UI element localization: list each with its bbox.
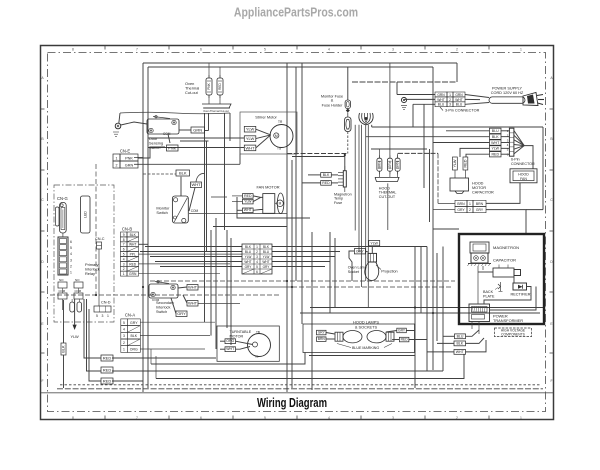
svg-text:BLK: BLK xyxy=(62,345,66,353)
svg-text:3: 3 xyxy=(392,48,394,52)
svg-text:ORG: ORG xyxy=(130,348,138,352)
svg-text:3: 3 xyxy=(392,416,394,420)
svg-text:NO: NO xyxy=(59,278,64,282)
wire 6pin label feeds xyxy=(446,130,490,132)
svg-text:3: 3 xyxy=(70,258,72,262)
wire hood cutout feeds xyxy=(378,149,380,158)
svg-text:GRY: GRY xyxy=(318,330,326,334)
stirrer motor group box xyxy=(240,112,297,154)
svg-text:YLW: YLW xyxy=(491,147,499,151)
wire WHT hook xyxy=(196,173,205,182)
svg-text:HOOD: HOOD xyxy=(472,182,484,186)
svg-text:F: F xyxy=(41,379,43,383)
wire CNA row1 out xyxy=(140,348,205,350)
capacitor hv xyxy=(493,268,514,277)
wire monitor fuse down xyxy=(347,132,349,154)
svg-text:6: 6 xyxy=(200,416,202,420)
wire WHT down xyxy=(189,188,195,212)
wire red run 1 xyxy=(112,357,216,359)
wire center dashed A xyxy=(287,153,348,155)
svg-text:BLK: BLK xyxy=(456,341,463,345)
wire label RED 1 xyxy=(101,355,113,361)
svg-text:RED: RED xyxy=(401,337,409,341)
svg-text:9: 9 xyxy=(123,233,125,237)
wire label GRN door xyxy=(191,127,205,133)
svg-text:RED: RED xyxy=(491,153,499,157)
wire fan feeds xyxy=(232,195,243,197)
svg-text:CN-G: CN-G xyxy=(57,196,68,201)
wire harness strand 4 xyxy=(365,125,367,281)
svg-text:2: 2 xyxy=(456,416,458,420)
svg-text:4: 4 xyxy=(256,260,258,264)
svg-text:GRN: GRN xyxy=(125,163,134,167)
wire vert x210 xyxy=(210,230,212,336)
wire label WHT fan xyxy=(243,208,254,213)
svg-text:M: M xyxy=(275,134,278,138)
svg-text:PNK: PNK xyxy=(207,82,211,89)
wire red feeds xyxy=(84,299,101,358)
wire CNB row5 out xyxy=(139,253,243,255)
wire 6pin fanout xyxy=(514,131,524,146)
svg-text:&: & xyxy=(331,99,334,103)
wire door drop right xyxy=(208,113,210,131)
wire vert x206 xyxy=(206,141,208,252)
wire label BRN hood L xyxy=(317,337,327,342)
wire vert x296 xyxy=(295,67,297,281)
svg-text:RED: RED xyxy=(244,194,252,198)
svg-text:COM: COM xyxy=(191,209,199,213)
svg-text:ORG: ORG xyxy=(226,339,234,343)
wire center dashed B xyxy=(292,156,345,158)
svg-text:6: 6 xyxy=(200,48,202,52)
wire harness strand 6 xyxy=(371,125,373,127)
wire vert x335 xyxy=(334,238,336,307)
wire label YLW stirrer 2 xyxy=(244,136,256,142)
power transformer xyxy=(469,304,490,322)
wire 3pin top xyxy=(352,81,457,83)
wire PNK down xyxy=(168,134,170,143)
svg-text:WHT: WHT xyxy=(456,350,465,354)
svg-text:7: 7 xyxy=(136,48,138,52)
svg-text:6: 6 xyxy=(256,270,258,274)
hood fan xyxy=(510,169,537,183)
svg-text:3-Pin CONNECTOR: 3-Pin CONNECTOR xyxy=(445,109,480,113)
wire 6pin to hood fan xyxy=(524,146,533,169)
wire fan bottom xyxy=(237,197,310,218)
svg-text:BLU: BLU xyxy=(438,103,445,107)
turntable group box xyxy=(217,326,279,361)
svg-text:1: 1 xyxy=(107,314,109,318)
wire red run 3 xyxy=(112,380,143,382)
wire vert x433 xyxy=(432,67,434,370)
connector pin strip 6pin left xyxy=(58,237,68,275)
svg-text:BLK: BLK xyxy=(179,171,187,176)
wire hood top 2 xyxy=(300,312,540,314)
svg-text:3: 3 xyxy=(449,103,451,107)
wire harness bundle xyxy=(359,113,373,125)
svg-text:8: 8 xyxy=(72,416,74,420)
wire center row 3R xyxy=(272,256,335,258)
wire CNA row3 out xyxy=(140,335,210,337)
svg-text:YLW: YLW xyxy=(245,255,252,259)
wire below hood box xyxy=(309,355,415,357)
wire CNE GRN out xyxy=(134,163,240,165)
svg-text:1: 1 xyxy=(469,202,471,206)
svg-text:5: 5 xyxy=(96,314,98,318)
svg-text:1: 1 xyxy=(256,245,258,249)
svg-text:YLW: YLW xyxy=(71,334,79,339)
connector 6-pin pin strip xyxy=(509,128,514,156)
svg-text:CAPACITOR: CAPACITOR xyxy=(472,191,494,195)
wire stirrer fanout xyxy=(256,129,271,135)
svg-text:GRY: GRY xyxy=(476,208,484,212)
wire vert x330 xyxy=(329,232,331,313)
svg-text:TS: TS xyxy=(277,147,281,151)
wire turntable feeds xyxy=(220,340,225,342)
wire label GRY hood R xyxy=(397,328,407,333)
wire CNA row5 out xyxy=(140,321,215,323)
svg-text:WHT: WHT xyxy=(129,243,137,247)
wire harness strand 5 xyxy=(367,125,369,308)
switch secondary interlock xyxy=(149,284,178,298)
svg-text:1: 1 xyxy=(449,93,451,97)
oven lamp socket xyxy=(368,253,377,262)
svg-text:Wiring Diagram: Wiring Diagram xyxy=(257,397,327,411)
wire vert x287 xyxy=(286,63,288,392)
svg-text:MAGNETRON: MAGNETRON xyxy=(493,245,519,250)
svg-text:CN-D: CN-D xyxy=(101,301,111,305)
wire long dashed y287 xyxy=(292,286,452,288)
svg-text:TB: TB xyxy=(256,330,260,334)
svg-text:RED: RED xyxy=(103,379,112,384)
svg-text:YLW: YLW xyxy=(246,127,255,132)
wire center row 1R xyxy=(272,246,427,248)
hood thermal cut-out xyxy=(377,158,382,171)
wire BLK left xyxy=(143,173,176,175)
svg-text:1: 1 xyxy=(70,271,72,275)
wire mid dashed y295 xyxy=(50,294,280,296)
svg-text:3: 3 xyxy=(102,314,104,318)
svg-text:GRN: GRN xyxy=(193,128,202,133)
svg-text:COM: COM xyxy=(152,298,160,302)
svg-text:PPL: PPL xyxy=(130,253,136,257)
svg-text:2: 2 xyxy=(123,267,125,271)
magnetron xyxy=(470,242,489,253)
wire center row 5R xyxy=(272,266,325,268)
hood lamp 1 xyxy=(343,331,362,343)
svg-text:RED: RED xyxy=(103,356,112,361)
wire label YLW fan xyxy=(243,199,254,204)
svg-text:4: 4 xyxy=(123,328,125,332)
svg-text:6: 6 xyxy=(70,240,72,244)
wire WHT sec out xyxy=(198,286,292,288)
svg-text:WHT: WHT xyxy=(437,98,445,102)
wire label WHT br xyxy=(454,350,466,355)
svg-text:MOTOR: MOTOR xyxy=(472,186,486,190)
svg-text:Fuse: Fuse xyxy=(334,201,342,205)
wire vert x415 xyxy=(414,247,416,389)
wire label WHT turntable xyxy=(225,347,236,352)
svg-text:CUT-OUT: CUT-OUT xyxy=(379,195,396,199)
svg-text:CN-E: CN-E xyxy=(120,149,130,154)
title separator line xyxy=(41,392,553,394)
wire vert x213 xyxy=(215,218,217,349)
node YLW arrow xyxy=(73,325,77,330)
svg-text:WHT: WHT xyxy=(244,208,253,212)
svg-text:BRN: BRN xyxy=(476,202,484,206)
svg-text:RED: RED xyxy=(218,82,222,89)
wire vert x424 xyxy=(423,104,425,188)
svg-text:6: 6 xyxy=(123,248,125,252)
svg-text:7: 7 xyxy=(123,243,125,247)
wire label WHT monitor xyxy=(191,182,202,188)
svg-text:Stirrer Motor: Stirrer Motor xyxy=(255,115,277,120)
high voltage components box xyxy=(459,234,544,324)
svg-text:GRY: GRY xyxy=(388,160,392,168)
svg-text:BRN: BRN xyxy=(457,202,465,206)
wire harness strand 1 xyxy=(354,125,356,231)
wire GRY link xyxy=(171,298,176,314)
svg-text:WHT: WHT xyxy=(188,301,198,306)
wire label ORG turntable xyxy=(225,339,236,344)
svg-text:WHT: WHT xyxy=(455,98,463,102)
wire mtf links xyxy=(331,174,338,176)
wire vert x427 xyxy=(429,149,431,222)
wire label WHT sec 1 xyxy=(187,285,198,291)
wire CNG down xyxy=(62,233,64,237)
wire center row 3 xyxy=(150,256,242,258)
wire label RED 3 xyxy=(101,378,113,384)
svg-text:GRY: GRY xyxy=(457,208,465,212)
svg-text:CN-C: CN-C xyxy=(95,237,105,241)
wire vert x227 xyxy=(226,230,228,328)
wire vert x458 xyxy=(456,63,458,82)
wire monitor COM out xyxy=(189,213,287,215)
svg-text:WHT: WHT xyxy=(191,182,201,187)
wire label YLW stirrer 1 xyxy=(244,126,256,132)
svg-text:Fuse Holder: Fuse Holder xyxy=(322,104,343,108)
svg-text:RED: RED xyxy=(129,262,137,266)
wire monitor stub xyxy=(211,196,227,198)
svg-text:BLK: BLK xyxy=(130,334,137,338)
svg-text:NO: NO xyxy=(75,278,80,282)
svg-text:POWER SUPPLY: POWER SUPPLY xyxy=(492,87,523,91)
svg-text:CN-A: CN-A xyxy=(125,313,135,318)
svg-text:4: 4 xyxy=(123,257,125,261)
hood lamp 2 xyxy=(367,331,386,343)
wire label GRY secondary xyxy=(176,311,187,317)
svg-text:2: 2 xyxy=(449,98,451,102)
svg-text:BLUE MARKING: BLUE MARKING xyxy=(352,346,379,350)
svg-text:WHT: WHT xyxy=(245,145,255,150)
wire vert x231 xyxy=(230,238,232,345)
back plate xyxy=(498,284,501,289)
wire CNB row3 out xyxy=(139,263,231,265)
switch door sensing xyxy=(147,119,179,134)
svg-text:MOTOR: MOTOR xyxy=(230,335,244,339)
svg-text:1: 1 xyxy=(520,416,522,420)
wire vert x312 xyxy=(311,232,313,390)
svg-text:GRY: GRY xyxy=(177,311,186,316)
svg-text:1: 1 xyxy=(123,348,125,352)
wire label BLK monitor xyxy=(176,170,190,176)
hood motor capacitor xyxy=(453,157,458,170)
svg-text:RECTIFIER: RECTIFIER xyxy=(511,293,531,297)
svg-text:F: F xyxy=(550,379,552,383)
svg-text:COM: COM xyxy=(163,132,171,136)
svg-text:PNK: PNK xyxy=(125,156,133,160)
svg-text:Switch: Switch xyxy=(156,310,167,314)
wire vert x421 xyxy=(420,247,422,314)
wire label PNK door xyxy=(167,145,179,151)
wire vert x292 xyxy=(291,160,293,388)
wire stirrer feed 2 xyxy=(148,147,244,149)
wire vert x230 xyxy=(229,113,231,141)
frame tick marks and grid refs xyxy=(104,46,106,50)
svg-text:BLK: BLK xyxy=(130,233,137,237)
relay pin pills xyxy=(70,302,75,312)
wire label RED 2 xyxy=(101,367,113,373)
door sense terminal xyxy=(115,123,121,129)
magnetron temp fuse comb xyxy=(343,171,346,187)
wire BRN GRY links xyxy=(438,202,455,204)
svg-text:CORD 120V 60 HZ: CORD 120V 60 HZ xyxy=(491,91,524,95)
svg-text:TR: TR xyxy=(278,120,283,124)
wire fan links xyxy=(253,196,263,198)
svg-text:BLU: BLU xyxy=(457,334,464,338)
wire vert x397 xyxy=(396,82,398,95)
wire label BLK vertical xyxy=(61,343,66,355)
svg-text:PNK: PNK xyxy=(168,146,177,151)
svg-text:YLW: YLW xyxy=(263,255,270,259)
svg-text:8: 8 xyxy=(72,48,74,52)
svg-text:Cut-out: Cut-out xyxy=(185,90,199,95)
wire center row 4R xyxy=(272,261,330,263)
svg-text:Relay: Relay xyxy=(85,271,95,276)
svg-text:5: 5 xyxy=(264,416,266,420)
fan motor body xyxy=(263,194,275,214)
svg-text:1: 1 xyxy=(520,48,522,52)
svg-text:& SOCKETS: & SOCKETS xyxy=(355,324,378,329)
wire harness strand 3 xyxy=(361,125,363,287)
svg-text:GRY: GRY xyxy=(398,328,406,332)
svg-text:5: 5 xyxy=(123,253,125,257)
svg-text:GRN: GRN xyxy=(437,93,445,97)
wire cord neutral run xyxy=(372,126,543,128)
wire harness strand 2 xyxy=(358,125,360,252)
wire left bus 1 xyxy=(142,63,144,392)
svg-text:TRANSFORMER: TRANSFORMER xyxy=(493,318,523,323)
svg-text:BLK: BLK xyxy=(492,135,499,139)
wire oven cutout feeds xyxy=(208,63,210,78)
svg-text:GRY: GRY xyxy=(130,321,138,325)
wire label GRY hood L xyxy=(317,330,327,335)
wire labels 6pin xyxy=(490,128,502,133)
wire junction dots xyxy=(344,154,346,156)
svg-text:3: 3 xyxy=(123,334,125,338)
rectifier xyxy=(513,283,527,290)
wire hood lamp links xyxy=(326,333,335,335)
wire vert x437 xyxy=(436,253,438,341)
svg-text:FAN MOTOR: FAN MOTOR xyxy=(256,185,279,190)
outer border frame xyxy=(41,46,554,420)
wire vert x345 fuse chain xyxy=(344,154,346,171)
svg-text:5: 5 xyxy=(123,321,125,325)
svg-text:7: 7 xyxy=(136,416,138,420)
svg-text:AppliancePartsPros.com: AppliancePartsPros.com xyxy=(234,7,358,20)
wire vert x302 xyxy=(301,63,303,324)
svg-text:WHT: WHT xyxy=(244,260,251,264)
inner dash-dot border frame xyxy=(48,53,546,412)
svg-text:GRN: GRN xyxy=(455,93,463,97)
svg-text:Switch: Switch xyxy=(156,210,167,215)
svg-text:CAPACITOR: CAPACITOR xyxy=(493,258,516,263)
wire label BLK mtf xyxy=(321,173,332,178)
wire center row 2R xyxy=(272,251,340,253)
wire GRN right xyxy=(205,130,209,132)
svg-text:PLATE: PLATE xyxy=(483,294,495,298)
svg-text:4: 4 xyxy=(328,416,330,420)
svg-text:GRY: GRY xyxy=(245,265,253,269)
wire vert x204 xyxy=(204,113,206,322)
connector 3-pin xyxy=(435,92,447,97)
svg-text:2: 2 xyxy=(256,250,258,254)
wire label WHT sec 2 xyxy=(187,301,198,307)
svg-text:Projection: Projection xyxy=(381,270,397,274)
svg-text:3: 3 xyxy=(123,262,125,266)
wire hood top 1 xyxy=(310,307,545,309)
wire 3pin feeds xyxy=(397,94,435,96)
svg-text:GRN: GRN xyxy=(396,160,400,168)
svg-text:COMPONENTS: COMPONENTS xyxy=(501,333,525,337)
svg-text:TURNTABLE: TURNTABLE xyxy=(230,330,252,334)
svg-text:FAN: FAN xyxy=(520,177,527,181)
svg-text:GRY: GRY xyxy=(356,250,364,254)
svg-text:BLK: BLK xyxy=(245,245,252,249)
svg-text:YLW: YLW xyxy=(246,136,255,141)
wire bottom bus xyxy=(57,388,543,390)
wire turntable links xyxy=(236,341,253,344)
svg-text:WHT: WHT xyxy=(226,347,235,351)
wire label BLK br xyxy=(454,341,466,346)
svg-text:YLW: YLW xyxy=(453,159,457,167)
svg-text:CONNECTOR: CONNECTOR xyxy=(511,162,535,166)
svg-text:BLK: BLK xyxy=(323,173,330,177)
LED indicator xyxy=(81,196,91,233)
wire vert x224 xyxy=(224,113,226,230)
svg-text:3: 3 xyxy=(256,255,258,259)
wire bottom run y378 xyxy=(156,354,464,379)
wire center row 2 xyxy=(140,251,242,253)
svg-text:YLW: YLW xyxy=(370,241,378,245)
wire red run 2 xyxy=(112,370,443,372)
svg-text:1: 1 xyxy=(123,272,125,276)
svg-text:Switch: Switch xyxy=(149,145,160,150)
svg-text:WHT: WHT xyxy=(491,141,500,145)
svg-text:RED: RED xyxy=(103,368,112,373)
wire label RED mtf xyxy=(321,181,332,186)
wire long dashed y281 xyxy=(150,280,455,282)
svg-text:BLK: BLK xyxy=(263,245,270,249)
wire CNB row7 out xyxy=(139,243,149,245)
svg-text:RED: RED xyxy=(464,159,468,167)
svg-text:BRN: BRN xyxy=(318,337,326,341)
wire door terminal to switch xyxy=(121,122,147,125)
wire hv internal xyxy=(477,266,479,304)
wire center row 1 xyxy=(145,246,242,248)
svg-text:CN-B: CN-B xyxy=(122,227,132,232)
connector BRN GRY xyxy=(455,200,467,206)
